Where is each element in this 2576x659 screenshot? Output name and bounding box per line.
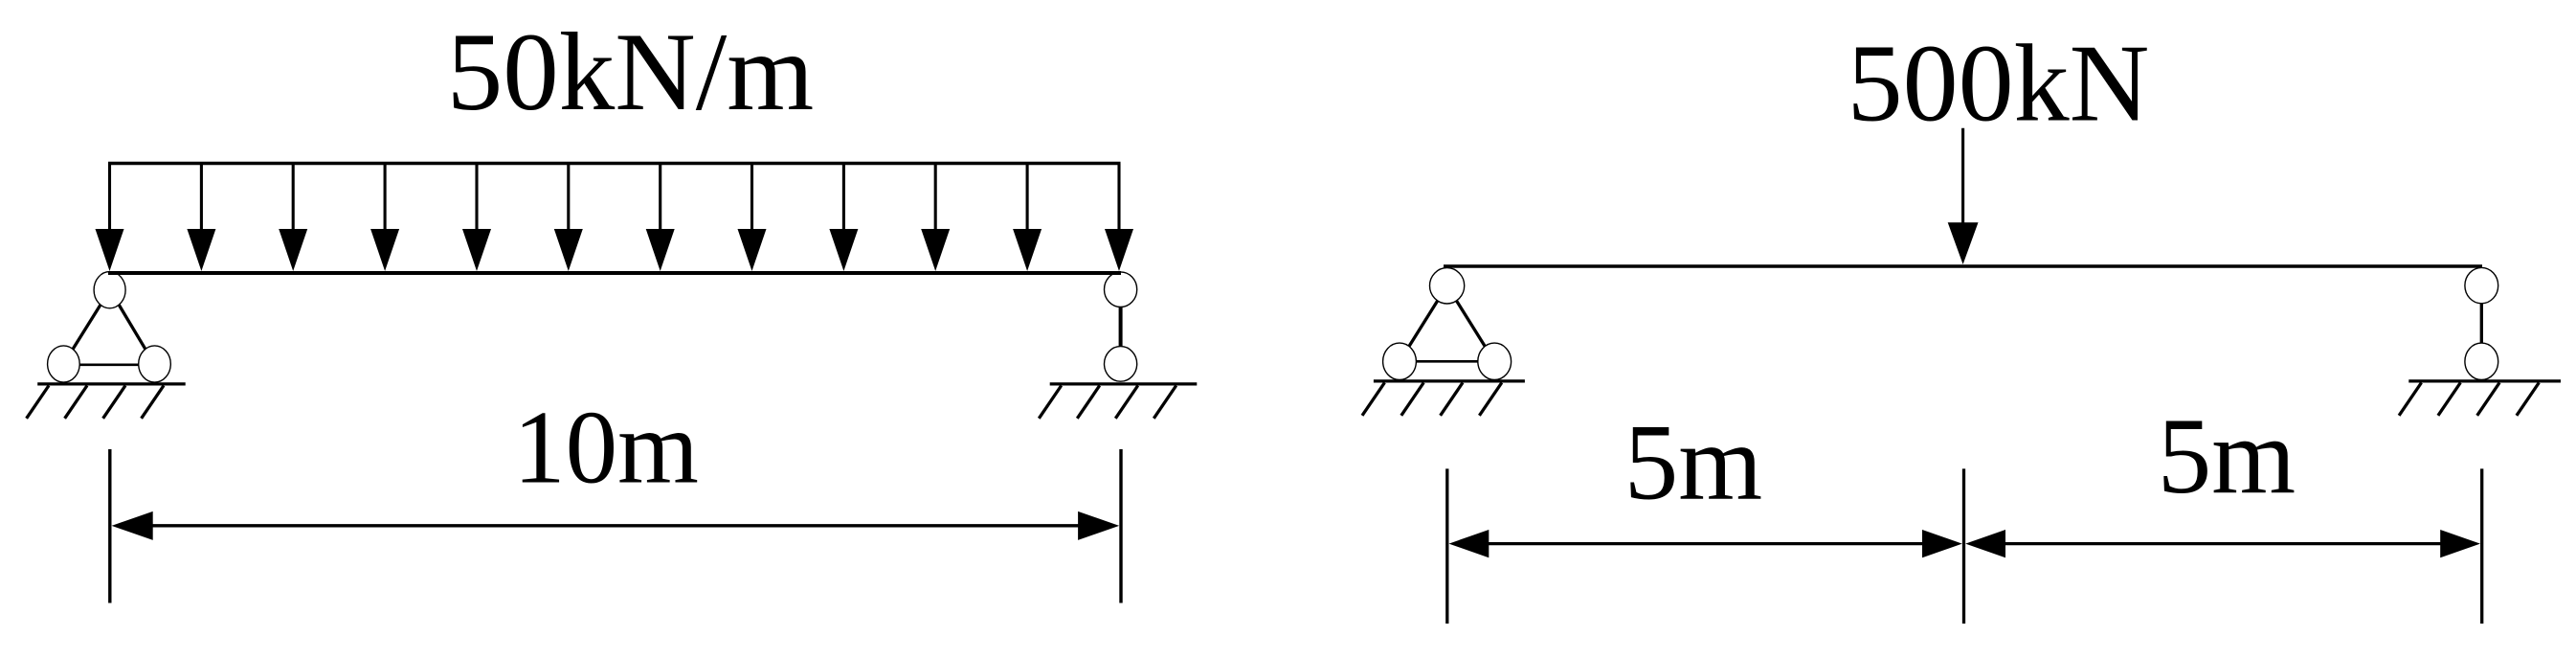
dimension 5m left segment: right arrowhead [1922, 530, 1962, 557]
dimension 5m+5m: right extension line [2480, 468, 2483, 624]
dimension 10m: left extension line [108, 449, 111, 603]
pin support (beam 2): bottom-right circle [1478, 343, 1512, 379]
roller link support right: bottom circle [1105, 347, 1137, 382]
roller link support right: link line [1119, 307, 1123, 347]
dimension 10m: left arrowhead [112, 511, 153, 540]
pin support left: ground hatches [27, 386, 164, 419]
dimension 5m+5m: middle extension line [1962, 468, 1965, 624]
point load arrowhead [1948, 222, 1979, 264]
beam 1 [108, 271, 1121, 275]
roller link support (beam 2): link line [2480, 304, 2483, 343]
pin support left: ground line [37, 382, 186, 385]
dimension 5m+5m: left extension line [1445, 468, 1448, 624]
distributed load arrows (12 shafts + heads) [96, 164, 1134, 272]
pin support left: bottom-left circle [48, 346, 80, 382]
dimension 5m right segment line [1998, 542, 2448, 545]
label 5m right [2158, 397, 2296, 516]
pin support (beam 2): base bar [1416, 360, 1477, 363]
roller link support right: ground hatches [1039, 386, 1176, 419]
label 5m left [1624, 403, 1762, 523]
label 500kN [1848, 23, 2150, 146]
roller link support right (beam 2): top circle [2465, 267, 2498, 303]
pin support left: base bar [79, 363, 139, 366]
label 10m [513, 390, 699, 506]
svg-text:5m: 5m [2158, 397, 2296, 516]
svg-text:500kN: 500kN [1848, 23, 2150, 146]
dimension 10m: right arrowhead [1078, 511, 1119, 540]
pin support (beam 2): ground line [1374, 379, 1525, 382]
dimension 10m: right extension line [1119, 449, 1122, 603]
svg-text:50kN/m: 50kN/m [447, 11, 815, 134]
dimension 10m: dimension line [144, 524, 1091, 527]
roller link support right: ground line [1050, 382, 1198, 385]
beam 2 [1444, 264, 2482, 268]
svg-text:10m: 10m [513, 390, 699, 506]
svg-text:5m: 5m [1624, 403, 1762, 523]
pin support left (beam 2): top circle [1430, 268, 1465, 304]
pin support (beam 2): left leg [1409, 301, 1438, 348]
dimension 5m left segment: left arrowhead [1449, 530, 1490, 557]
roller link support right (beam 1): top circle [1105, 272, 1137, 307]
pin support left: bottom-right circle [139, 346, 171, 382]
pin support (beam 2): right leg [1456, 301, 1485, 348]
pin support (beam 2): bottom-left circle [1383, 343, 1417, 379]
roller link support (beam 2): bottom circle [2465, 343, 2498, 379]
point load arrow shaft [1961, 128, 1964, 230]
roller link support (beam 2): ground line [2408, 379, 2561, 382]
dimension 5m right segment: right arrowhead [2440, 530, 2480, 557]
dimension 5m left segment line [1482, 542, 1930, 545]
roller link support (beam 2): ground hatches [2399, 383, 2539, 416]
pin support (beam 2): ground hatches [1362, 383, 1502, 416]
pin support left: right leg [119, 305, 146, 350]
pin support left (beam 1): top circle [94, 272, 125, 308]
pin support left: left leg [73, 305, 101, 350]
distributed load top line [108, 162, 1121, 165]
label 50kN/m [447, 11, 815, 134]
dimension 5m right segment: left arrowhead [1965, 530, 2005, 557]
